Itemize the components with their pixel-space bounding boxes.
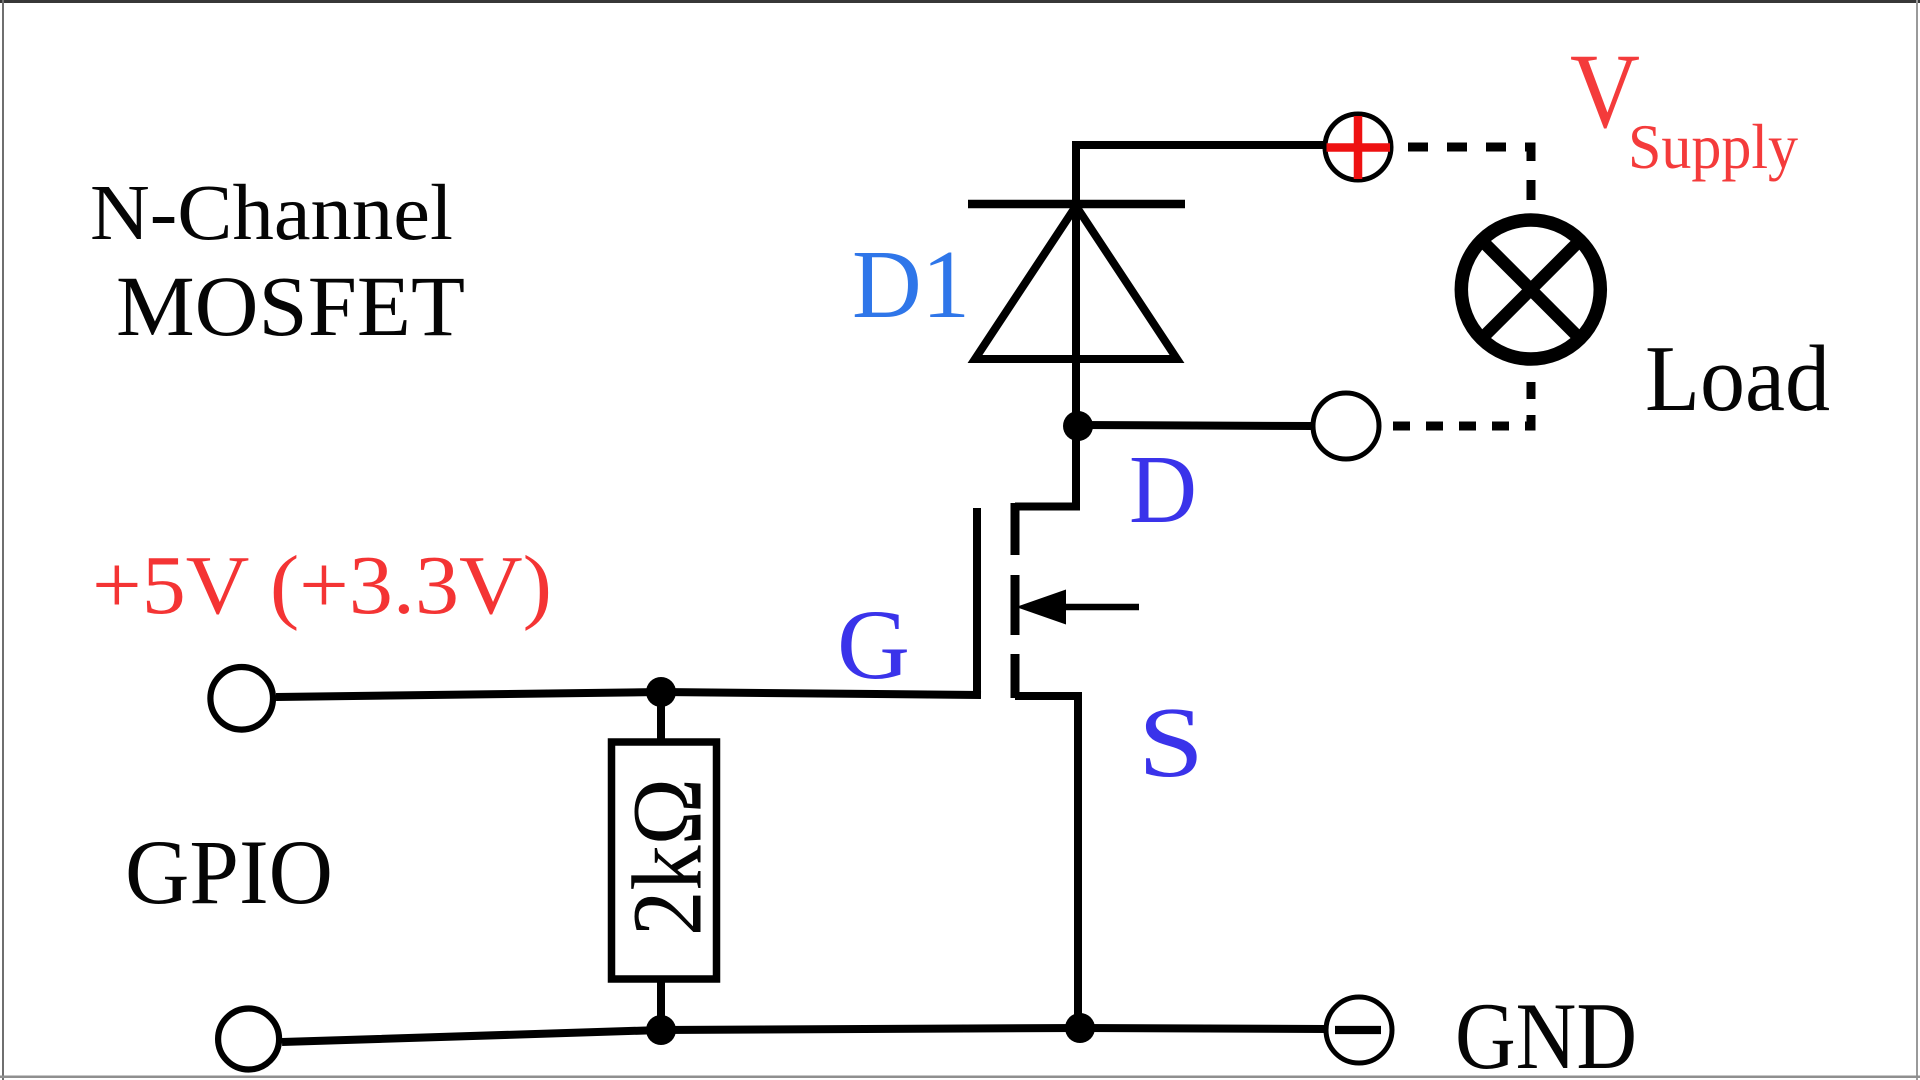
svg-text:+5V (+3.3V): +5V (+3.3V) (92, 539, 552, 632)
svg-text:GPIO: GPIO (125, 821, 333, 923)
diode D1 cathode bar (968, 200, 1185, 209)
wire cathode to V+ terminal (1076, 145, 1326, 204)
terminal GND (minus circle) (1326, 997, 1392, 1063)
dashed wire lamp to load return (1381, 366, 1531, 426)
svg-text:N-Channel: N-Channel (90, 170, 453, 257)
resistor R1 (612, 742, 717, 979)
svg-text:Load: Load (1645, 327, 1830, 431)
wire resistor top lead (657, 692, 665, 744)
svg-text:Supply: Supply (1628, 111, 1798, 182)
svg-text:G: G (837, 589, 910, 700)
terminal GPIO ground (open circle) (218, 1009, 279, 1070)
transistor Q1 gate electrode (973, 508, 981, 698)
transistor Q1 body arrow (1016, 590, 1139, 625)
diode D1 triangle (975, 206, 1177, 359)
transistor Q1 channel (dashed bar) (1011, 503, 1020, 698)
transistor Q1 source lead (1015, 696, 1078, 1028)
junction resistor/ground node (646, 1015, 676, 1045)
svg-text:GND: GND (1455, 983, 1637, 1080)
junction drain node (1063, 411, 1093, 441)
terminal V+ (plus circle) (1325, 114, 1391, 180)
label "N-Channel MOSFET" (90, 170, 465, 354)
wire resistor bottom lead (657, 979, 665, 1031)
svg-text:MOSFET: MOSFET (116, 258, 465, 354)
terminal GPIO signal (open circle) (210, 667, 273, 730)
svg-text:S: S (1138, 686, 1204, 798)
dashed wire V+ to lamp (1398, 147, 1531, 213)
svg-text:D: D (1129, 436, 1197, 543)
wire gate rail (276, 692, 981, 697)
label V Supply (1570, 33, 1798, 182)
svg-text:D1: D1 (852, 231, 970, 338)
wire ground rail (282, 1028, 1327, 1042)
lamp Load symbol (1461, 220, 1600, 359)
wire drain node to load terminal (1078, 425, 1312, 426)
transistor Q1 drain lead (1015, 426, 1076, 507)
junction source/ground node (1065, 1013, 1095, 1043)
junction gate/resistor node (646, 677, 676, 707)
svg-text:2kΩ: 2kΩ (612, 778, 723, 936)
terminal load return (open circle) (1313, 393, 1379, 459)
wire diode anode lead (1072, 204, 1080, 427)
